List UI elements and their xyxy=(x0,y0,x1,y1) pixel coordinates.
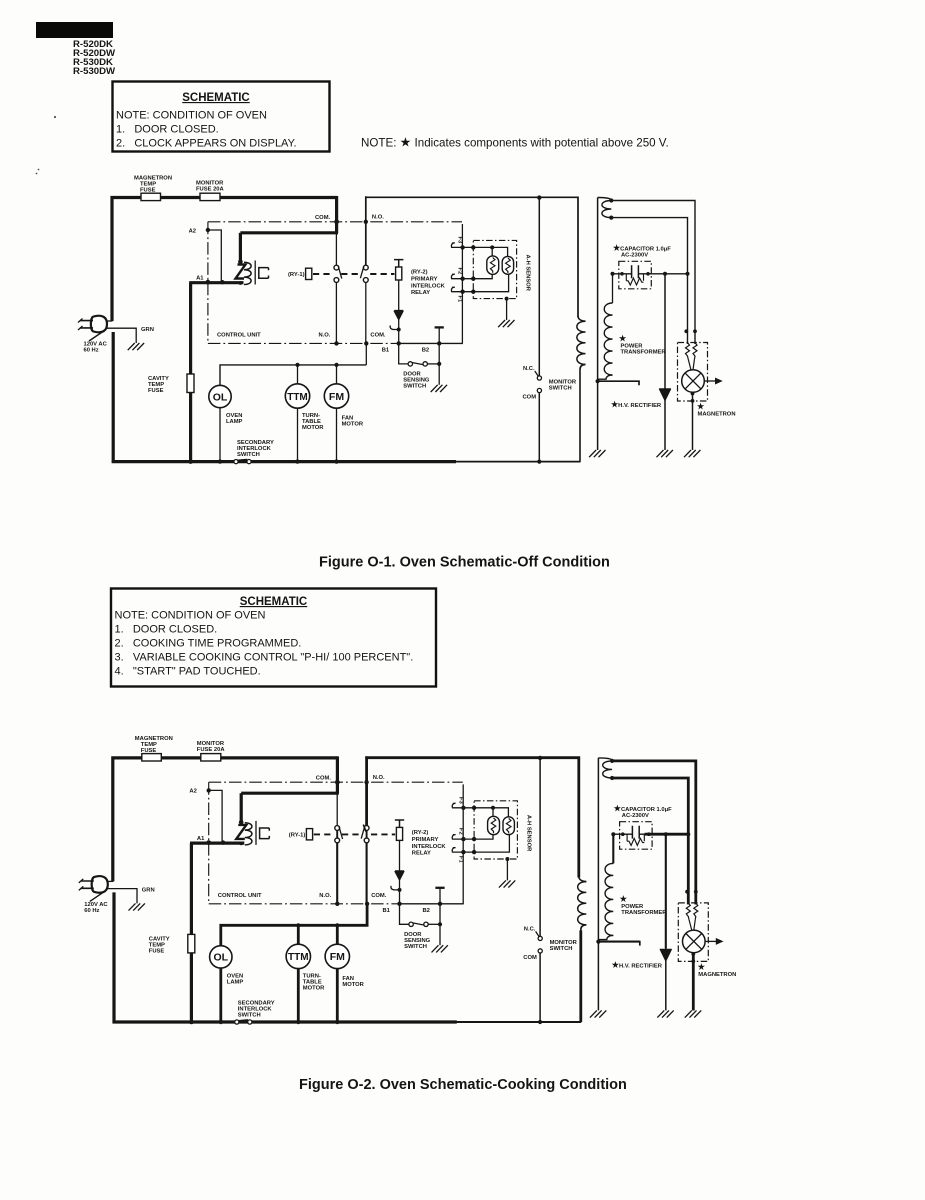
svg-text:LAMP: LAMP xyxy=(226,419,243,425)
svg-text:Figure O-1. Oven Schematic-Off: Figure O-1. Oven Schematic-Off Condition xyxy=(319,555,610,571)
svg-text:A1: A1 xyxy=(196,276,204,282)
svg-text:B1: B1 xyxy=(382,348,390,354)
svg-text:FM: FM xyxy=(329,391,344,403)
svg-text:A2: A2 xyxy=(189,228,196,234)
svg-text:★: ★ xyxy=(619,334,627,343)
svg-text:NOTE: CONDITION OF OVEN: NOTE: CONDITION OF OVEN xyxy=(115,610,266,622)
svg-text:N.O.: N.O. xyxy=(319,332,331,338)
svg-text:MAGNETRON: MAGNETRON xyxy=(698,412,736,418)
svg-text:(RY-1): (RY-1) xyxy=(288,272,305,278)
svg-text:Figure O-2. Oven Schematic-Coo: Figure O-2. Oven Schematic-Cooking Condi… xyxy=(299,1077,627,1093)
svg-text:1. DOOR CLOSED.: 1. DOOR CLOSED. xyxy=(115,624,218,636)
svg-text:F3: F3 xyxy=(457,237,463,245)
svg-text:2. CLOCK APPEARS ON DISPLAY.: 2. CLOCK APPEARS ON DISPLAY. xyxy=(116,138,297,150)
svg-text:N.C.: N.C. xyxy=(523,366,535,372)
svg-text:FUSE: FUSE xyxy=(140,188,156,194)
svg-text:CONTROL UNIT: CONTROL UNIT xyxy=(217,333,261,339)
svg-text:TTM: TTM xyxy=(287,392,308,403)
svg-text:SCHEMATIC: SCHEMATIC xyxy=(182,92,250,104)
svg-text:FUSE: FUSE xyxy=(148,388,164,394)
svg-text:MOTOR: MOTOR xyxy=(302,425,324,431)
svg-text:NOTE: ★ Indicates components w: NOTE: ★ Indicates components with potent… xyxy=(361,135,669,150)
svg-text:N.O.: N.O. xyxy=(372,215,384,221)
svg-text:SWITCH: SWITCH xyxy=(403,384,426,390)
svg-text:1. DOOR CLOSED.: 1. DOOR CLOSED. xyxy=(116,124,219,136)
svg-text:4. "START" PAD TOUCHED.: 4. "START" PAD TOUCHED. xyxy=(115,666,261,678)
svg-text:FUSE 20A: FUSE 20A xyxy=(196,187,225,193)
svg-text:(RY-2): (RY-2) xyxy=(411,270,428,276)
svg-text:F2: F2 xyxy=(457,268,463,275)
svg-text:PRIMARY: PRIMARY xyxy=(411,277,438,283)
svg-text:B2: B2 xyxy=(422,348,429,354)
svg-text:RELAY: RELAY xyxy=(411,290,430,296)
svg-text:COM.: COM. xyxy=(315,215,331,221)
svg-text:OL: OL xyxy=(213,391,228,403)
svg-text:R-530DW: R-530DW xyxy=(73,66,116,77)
svg-text:SWITCH: SWITCH xyxy=(237,452,260,458)
svg-text:60 Hz: 60 Hz xyxy=(84,348,99,354)
svg-text:3. VARIABLE COOKING CONTROL: 3. VARIABLE COOKING CONTROL "P-HI/ 100 P… xyxy=(115,652,414,664)
svg-text:★: ★ xyxy=(697,402,705,411)
svg-text:2. COOKING TIME PROGRAMMED.: 2. COOKING TIME PROGRAMMED. xyxy=(115,638,302,650)
svg-text:COM: COM xyxy=(523,395,537,401)
svg-text:GRN: GRN xyxy=(141,327,154,333)
svg-text:NOTE: CONDITION OF OVEN: NOTE: CONDITION OF OVEN xyxy=(116,110,267,122)
svg-text:COM.: COM. xyxy=(370,332,386,338)
svg-text:F1: F1 xyxy=(457,296,463,304)
svg-text:INTERLOCK: INTERLOCK xyxy=(411,284,446,290)
svg-text:AC-2300V: AC-2300V xyxy=(621,253,648,259)
svg-text:MOTOR: MOTOR xyxy=(342,422,364,428)
svg-text:SWITCH: SWITCH xyxy=(549,386,572,392)
svg-text:A-H SENSOR: A-H SENSOR xyxy=(525,255,531,292)
svg-text:SCHEMATIC: SCHEMATIC xyxy=(240,596,308,608)
svg-text:TRANSFORMER: TRANSFORMER xyxy=(621,350,667,356)
